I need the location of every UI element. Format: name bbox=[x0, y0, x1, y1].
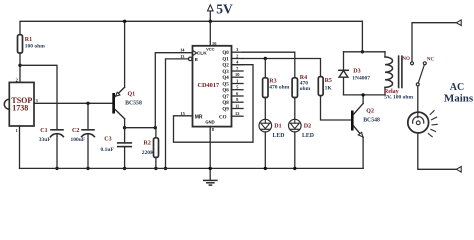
transistor Q2 BC548 bbox=[351, 95, 380, 168]
svg-text:Mains: Mains bbox=[444, 92, 474, 104]
relay contact NC bbox=[423, 57, 434, 65]
wire R4 to D2 bbox=[294, 98, 296, 119]
wire R5 to Q2 base bbox=[321, 96, 352, 120]
lamp bbox=[408, 111, 437, 137]
svg-text:R3: R3 bbox=[269, 78, 276, 84]
relay contact NO bbox=[402, 57, 413, 65]
diode D3 1N4007 bbox=[339, 52, 370, 95]
IC pin numbers right bbox=[235, 47, 240, 116]
wire Q1 collector node bbox=[123, 126, 157, 129]
svg-text:100 ohm: 100 ohm bbox=[25, 44, 45, 50]
resistor R5 bbox=[318, 77, 332, 96]
node Q1/R3 junction bbox=[264, 57, 267, 60]
node C1 ground bbox=[55, 167, 58, 170]
wire TSOP pin3 output to Q1 base bbox=[34, 102, 112, 104]
svg-text:VCC: VCC bbox=[206, 47, 215, 52]
svg-text:Q1: Q1 bbox=[222, 58, 229, 63]
svg-text:Q3: Q3 bbox=[222, 70, 229, 75]
node Q1 emitter to 5V rail bbox=[123, 20, 126, 23]
svg-text:220K: 220K bbox=[142, 150, 155, 156]
LED D2 bbox=[289, 119, 314, 169]
svg-text:R5: R5 bbox=[325, 78, 332, 84]
svg-text:Q2: Q2 bbox=[222, 64, 229, 69]
relay pole and lever bbox=[416, 65, 424, 86]
svg-text:Q8: Q8 bbox=[222, 101, 229, 106]
svg-text:2: 2 bbox=[236, 54, 238, 59]
node R2 ground bbox=[154, 167, 157, 170]
resistor R2 bbox=[142, 128, 159, 169]
node R1/TSOP/C1 junction bbox=[18, 64, 57, 130]
capacitor C1 bbox=[39, 128, 64, 169]
wire NO contact to AC terminal bbox=[412, 23, 456, 62]
svg-text:11: 11 bbox=[235, 104, 239, 109]
svg-text:GND: GND bbox=[205, 119, 214, 124]
svg-text:1: 1 bbox=[236, 79, 238, 84]
resistor R1 bbox=[18, 35, 46, 53]
wire relay bottom bbox=[344, 94, 386, 96]
wire 5V rail down to relay/D3 top bbox=[361, 21, 363, 52]
label AC Mains bbox=[444, 82, 474, 105]
node Q2 collector junction bbox=[361, 93, 364, 96]
relay coil bbox=[384, 52, 413, 101]
IC U1 CD4017 bbox=[188, 46, 231, 127]
svg-text:C2: C2 bbox=[72, 128, 79, 134]
svg-text:33uF: 33uF bbox=[39, 137, 52, 143]
wire R3 to D1 bbox=[264, 98, 266, 119]
node D1 ground bbox=[264, 167, 267, 170]
svg-text:5V, 100 ohm: 5V, 100 ohm bbox=[384, 95, 413, 101]
wire lamp to AC terminal bottom bbox=[418, 133, 456, 170]
IC pin numbers left/top/bottom bbox=[180, 41, 217, 132]
svg-text:NO: NO bbox=[402, 57, 410, 62]
svg-text:Q0: Q0 bbox=[222, 51, 229, 56]
resistor R4 bbox=[292, 75, 311, 98]
svg-text:LED: LED bbox=[273, 133, 285, 139]
svg-text:CD4017: CD4017 bbox=[197, 82, 219, 89]
svg-text:1K: 1K bbox=[325, 86, 333, 92]
IC pin names Q0-Q9 CO bbox=[219, 51, 229, 120]
svg-text:1N4007: 1N4007 bbox=[352, 76, 370, 82]
node 5V-VCC junction bbox=[209, 20, 212, 23]
wire VCC pin16 to 5V rail bbox=[209, 21, 211, 46]
svg-text:12: 12 bbox=[235, 111, 239, 116]
svg-text:BC548: BC548 bbox=[363, 118, 380, 124]
terminal arrow bottom bbox=[456, 167, 461, 173]
svg-text:470 ohm: 470 ohm bbox=[269, 84, 289, 90]
terminal arrow top bbox=[456, 20, 461, 26]
wire pole to lamp bbox=[417, 86, 419, 112]
ground symbol bbox=[204, 127, 217, 186]
svg-text:1738: 1738 bbox=[12, 104, 28, 113]
svg-text:BC558: BC558 bbox=[125, 101, 142, 107]
svg-text:C3: C3 bbox=[104, 136, 111, 142]
svg-text:Q1: Q1 bbox=[128, 91, 136, 97]
wire Q0 pin3 to R4 bbox=[243, 52, 295, 78]
svg-text:D1: D1 bbox=[274, 124, 281, 130]
svg-text:2: 2 bbox=[16, 77, 18, 82]
svg-text:3: 3 bbox=[36, 98, 38, 103]
svg-text:MR: MR bbox=[195, 115, 203, 121]
node C3 ground bbox=[123, 167, 126, 170]
wire TSOP pin1 to ground rail bbox=[19, 126, 21, 168]
wire Q1 pin2 to R3 and R5 bbox=[243, 59, 321, 77]
5V supply arrow bbox=[208, 5, 214, 22]
svg-text:5V: 5V bbox=[216, 1, 233, 16]
svg-text:CO: CO bbox=[219, 115, 227, 120]
svg-text:ohm: ohm bbox=[300, 86, 311, 92]
svg-text:Q5: Q5 bbox=[222, 83, 229, 88]
svg-text:LED: LED bbox=[302, 133, 314, 139]
capacitor C3 bbox=[101, 128, 132, 169]
svg-text:Q6: Q6 bbox=[222, 89, 229, 94]
svg-text:1: 1 bbox=[16, 128, 18, 133]
wire MR pin15 to Q2 pin4 loop bbox=[174, 65, 254, 143]
svg-text:AC: AC bbox=[450, 82, 464, 93]
wire 5V top rail bbox=[20, 21, 362, 82]
node D3/relay top junction bbox=[361, 50, 364, 53]
svg-text:NC: NC bbox=[427, 57, 435, 62]
IC output pin stubs Q0-Q9 CO bbox=[232, 52, 244, 116]
svg-text:R1: R1 bbox=[25, 37, 32, 43]
svg-text:C1: C1 bbox=[40, 128, 47, 134]
resistor R3 bbox=[263, 78, 290, 98]
svg-text:Q2: Q2 bbox=[366, 108, 374, 114]
IR receiver TSOP 1738 bbox=[4, 77, 37, 132]
node D2 ground bbox=[293, 167, 296, 170]
svg-text:D2: D2 bbox=[304, 124, 311, 130]
svg-text:0.1uF: 0.1uF bbox=[101, 147, 115, 153]
svg-text:Q4: Q4 bbox=[222, 76, 229, 81]
wire E pin13 to ground bbox=[166, 59, 189, 168]
wire CLK from Q1 collector to pin 14 bbox=[155, 53, 192, 128]
svg-text:100uF: 100uF bbox=[71, 137, 86, 143]
wire relay top bbox=[344, 51, 386, 53]
ground rail bbox=[20, 167, 364, 169]
node E ground bbox=[164, 167, 167, 170]
capacitor C2 bbox=[71, 102, 95, 169]
svg-text:Q9: Q9 bbox=[222, 108, 229, 113]
svg-text:R2: R2 bbox=[144, 141, 151, 147]
node C2 ground bbox=[86, 167, 89, 170]
LED D1 bbox=[259, 119, 284, 169]
svg-text:D3: D3 bbox=[353, 69, 360, 75]
transistor Q1 BC558 bbox=[112, 21, 142, 127]
svg-text:Q7: Q7 bbox=[222, 95, 229, 100]
